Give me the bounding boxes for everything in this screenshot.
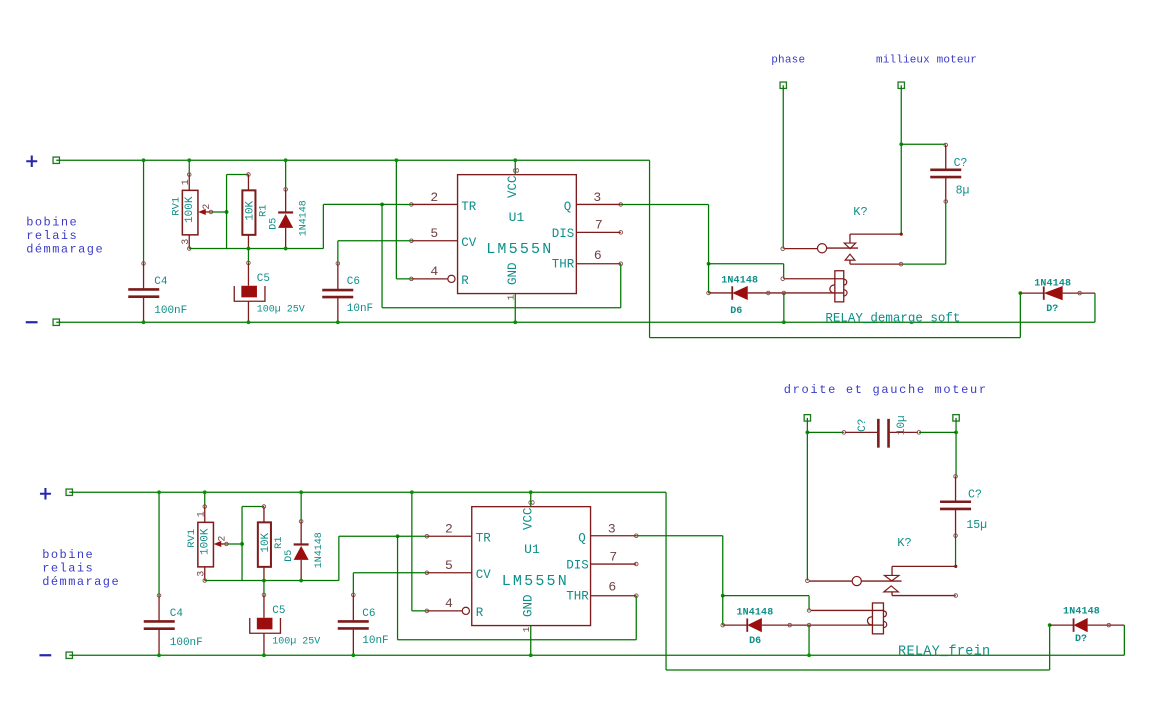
pin 6 THR <box>619 262 623 266</box>
svg-text:C?: C? <box>954 157 968 170</box>
wire CV net lower <box>353 572 427 574</box>
svg-text:millieux moteur: millieux moteur <box>876 54 977 66</box>
svg-text:C6: C6 <box>347 276 360 288</box>
svg-text:100nF: 100nF <box>170 637 203 649</box>
net - (lower ground rail) <box>66 652 72 658</box>
capacitor C6 10nF <box>337 241 339 264</box>
capacitor C5 100u 25V polarized <box>247 249 249 263</box>
pin 8 VCC lower <box>530 492 532 506</box>
pin 5 CV lower <box>425 571 429 575</box>
svg-text:8µ: 8µ <box>956 184 970 197</box>
svg-text:10nF: 10nF <box>362 635 388 647</box>
pin 1 GND <box>514 294 516 323</box>
svg-text:U1: U1 <box>524 542 540 557</box>
svg-text:C4: C4 <box>154 276 168 288</box>
resistor R1 10K <box>247 173 251 177</box>
svg-text:1: 1 <box>196 511 207 517</box>
svg-text:3: 3 <box>196 571 207 577</box>
svg-text:10nF: 10nF <box>347 303 373 315</box>
svg-text:3: 3 <box>608 521 616 536</box>
svg-text:DIS: DIS <box>566 559 589 573</box>
pin 2 TR <box>410 203 414 207</box>
pin 4 R inverted lower <box>425 609 429 613</box>
potentiometer RV1 100K <box>188 160 190 174</box>
svg-text:bobine: bobine <box>26 215 78 229</box>
diode D? 1N4148 lower right <box>1048 623 1052 627</box>
svg-text:3: 3 <box>593 190 601 205</box>
resistor R1 10K lower <box>262 505 266 509</box>
svg-text:C4: C4 <box>170 608 184 620</box>
label + plus symbol lower <box>40 488 51 499</box>
pin 5 CV <box>410 239 414 243</box>
net millieux terminal <box>898 82 904 88</box>
wire C?15u bottom to relay NC contact lower <box>955 536 957 567</box>
svg-text:relais: relais <box>26 229 78 243</box>
svg-text:2: 2 <box>217 536 228 542</box>
svg-text:R1: R1 <box>257 204 269 217</box>
wire D6 right to rail lower <box>808 625 810 655</box>
svg-text:C?: C? <box>857 419 869 432</box>
svg-text:100µ 25V: 100µ 25V <box>257 305 305 316</box>
svg-text:Q: Q <box>578 532 586 546</box>
svg-text:D6: D6 <box>749 636 761 647</box>
wire node row lower <box>205 580 339 582</box>
pin 2 TR lower <box>425 534 429 538</box>
svg-text:U1: U1 <box>509 210 525 225</box>
svg-text:5: 5 <box>445 558 453 573</box>
wire TR node lower <box>338 536 340 580</box>
svg-text:CV: CV <box>461 236 477 250</box>
capacitor C4 <box>143 160 145 263</box>
svg-text:R1: R1 <box>273 536 285 549</box>
svg-text:RV1: RV1 <box>186 529 198 548</box>
svg-text:1N4148: 1N4148 <box>314 532 325 568</box>
svg-text:D?: D? <box>1046 304 1058 315</box>
svg-text:1N4148: 1N4148 <box>1034 279 1071 290</box>
svg-text:7: 7 <box>595 218 603 233</box>
svg-text:6: 6 <box>608 580 616 595</box>
svg-text:VCC: VCC <box>506 175 520 198</box>
svg-text:R: R <box>461 274 469 288</box>
pin 7 DIS lower <box>634 562 638 566</box>
wire TR to THR feedback loop <box>381 204 383 307</box>
label + plus symbol <box>26 156 37 167</box>
svg-text:15µ: 15µ <box>966 519 987 532</box>
svg-text:100K: 100K <box>184 196 196 223</box>
svg-text:4: 4 <box>445 596 453 611</box>
svg-text:RELAY_frein: RELAY_frein <box>898 644 990 659</box>
svg-text:1: 1 <box>505 294 516 300</box>
svg-text:8: 8 <box>527 499 538 505</box>
svg-text:D5: D5 <box>269 218 280 230</box>
svg-text:GND: GND <box>521 594 535 617</box>
svg-text:C?: C? <box>968 488 982 501</box>
wire Q output to relay node <box>621 203 709 205</box>
relay K? coil lower <box>807 609 811 613</box>
svg-text:5: 5 <box>430 226 438 241</box>
diode D5 1N4148 lower <box>300 492 302 521</box>
wire C? bottom to relay NO contact <box>945 201 947 264</box>
net phase terminal <box>780 82 786 88</box>
svg-text:RELAY_demarge soft: RELAY_demarge soft <box>825 311 960 325</box>
wire CV net C6 to pin5 <box>338 240 412 242</box>
svg-text:THR: THR <box>566 590 589 604</box>
svg-text:1: 1 <box>521 626 532 632</box>
svg-text:LM555N: LM555N <box>486 241 553 258</box>
capacitor C4 lower <box>158 492 160 595</box>
svg-text:Q: Q <box>564 200 572 214</box>
net + (lower supply rail) <box>66 489 72 495</box>
svg-text:10K: 10K <box>260 532 272 552</box>
svg-text:D6: D6 <box>730 306 742 317</box>
net terminal right lower relay <box>953 415 959 421</box>
svg-text:2: 2 <box>202 204 213 210</box>
potentiometer RV1 100K lower <box>204 492 206 506</box>
wire node row under RV1/R1/D5 <box>189 248 323 250</box>
wire reset pin4 from + rail <box>395 160 397 279</box>
svg-text:CV: CV <box>476 568 492 582</box>
svg-text:2: 2 <box>430 190 438 205</box>
pin 1 GND lower <box>530 626 532 656</box>
svg-text:1: 1 <box>181 179 192 185</box>
svg-text:1N4148: 1N4148 <box>298 200 309 236</box>
diode D6 1N4148 flyback lower <box>721 623 725 627</box>
relay K? coil <box>781 277 785 281</box>
svg-text:10µ: 10µ <box>896 415 908 435</box>
op-amp U1 LM555N body lower <box>472 507 591 626</box>
wire RV1 wiper to RV1 pin3 and R1 top <box>211 211 227 213</box>
diode D5 1N4148 <box>285 160 287 189</box>
svg-text:démmarage: démmarage <box>26 243 104 257</box>
wire right drop lower rail to D? loop <box>665 492 667 670</box>
svg-text:démmarage: démmarage <box>42 575 120 589</box>
svg-text:bobine: bobine <box>42 548 94 562</box>
wire lower rail up to D? right pin <box>1123 625 1125 655</box>
svg-text:D5: D5 <box>284 550 295 562</box>
pin 6 THR lower <box>634 594 638 598</box>
pin 8 VCC <box>514 160 516 174</box>
svg-text:2: 2 <box>445 522 453 537</box>
svg-text:100K: 100K <box>199 528 211 555</box>
svg-text:C5: C5 <box>257 273 270 285</box>
pin 4 R inverted <box>410 277 414 281</box>
pin 3 Q <box>619 203 623 207</box>
svg-text:RV1: RV1 <box>170 197 182 216</box>
svg-text:3: 3 <box>181 239 192 245</box>
svg-text:R: R <box>476 606 484 620</box>
capacitor C6 10nF lower <box>352 573 354 595</box>
svg-text:100µ 25V: 100µ 25V <box>272 637 320 648</box>
net terminal left lower relay <box>804 415 810 421</box>
svg-text:7: 7 <box>609 549 617 564</box>
wire TR-THR loop lower <box>397 536 399 640</box>
svg-text:10K: 10K <box>244 200 256 220</box>
op-amp U1 LM555N body <box>458 175 577 294</box>
net - (top ground rail) <box>53 319 59 325</box>
svg-text:C5: C5 <box>272 605 285 617</box>
svg-text:1N4148: 1N4148 <box>1063 607 1100 618</box>
svg-text:1N4148: 1N4148 <box>736 607 773 618</box>
svg-text:K?: K? <box>897 536 911 550</box>
svg-text:K?: K? <box>853 205 867 219</box>
svg-text:LM555N: LM555N <box>502 573 569 590</box>
svg-text:TR: TR <box>461 200 477 214</box>
wire reset pin4 lower <box>411 492 413 611</box>
svg-text:relais: relais <box>42 561 94 575</box>
wire Q output to relay node lower <box>636 535 723 537</box>
pin 3 Q lower <box>634 534 638 538</box>
svg-text:8: 8 <box>511 167 522 173</box>
capacitor C? 10u horizontal <box>807 431 844 433</box>
svg-text:4: 4 <box>430 264 438 279</box>
svg-text:GND: GND <box>506 262 520 285</box>
capacitor C5 100u 25V lower <box>263 581 265 595</box>
diode D6 1N4148 flyback <box>707 291 711 295</box>
pin 7 DIS <box>619 231 623 235</box>
wire right drop from + rail to D? loop <box>649 160 651 337</box>
svg-text:VCC: VCC <box>521 507 535 530</box>
svg-text:D?: D? <box>1075 634 1087 645</box>
svg-text:100nF: 100nF <box>154 305 187 317</box>
svg-text:1N4148: 1N4148 <box>721 275 758 286</box>
wire RV1 wiper node lower <box>226 543 242 545</box>
capacitor C? 8u <box>901 143 946 145</box>
wire TR/THR node from row up to pin2 <box>322 204 324 248</box>
net + (top supply rail) <box>53 157 59 163</box>
svg-text:C6: C6 <box>362 608 375 620</box>
svg-text:droite et gauche moteur: droite et gauche moteur <box>784 383 988 397</box>
capacitor C? 15u <box>954 475 958 479</box>
svg-text:6: 6 <box>594 248 602 263</box>
svg-text:DIS: DIS <box>552 227 575 241</box>
svg-text:TR: TR <box>476 532 492 546</box>
svg-text:phase: phase <box>771 54 805 66</box>
diode D? 1N4148 top right <box>1018 291 1022 295</box>
label - minus symbol lower <box>39 654 51 656</box>
label - minus symbol <box>26 321 38 323</box>
wire D6 right to ground rail <box>783 293 785 322</box>
wire bottom rail up to D? right pin <box>1094 293 1096 322</box>
svg-text:THR: THR <box>552 258 575 272</box>
